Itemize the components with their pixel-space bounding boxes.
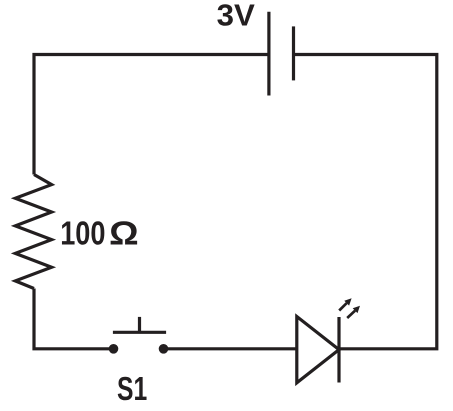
LED D1 triangle (anode) (297, 317, 339, 383)
svg-text:100: 100 (60, 215, 105, 252)
wire from resistor bottom to bottom-left corner and to switch left contact (34, 289, 114, 349)
svg-text:S1: S1 (117, 371, 147, 408)
LED D1 cathode bar (337, 317, 340, 383)
value label 3V (217, 0, 256, 33)
wire from battery positive plate to top-left corner and down to resistor top (34, 55, 269, 175)
svg-text:Ω: Ω (109, 215, 139, 252)
battery BT1 negative plate (short) (292, 26, 295, 80)
LED light emission arrow 1 (339, 298, 351, 310)
value label 100 ohm (60, 215, 139, 252)
wire from switch right contact to LED anode (164, 347, 297, 350)
wire from LED cathode along bottom-right corner up right side to battery negative plate (294, 55, 437, 349)
svg-text:3V: 3V (217, 0, 256, 33)
resistor R1 (zigzag) (15, 175, 51, 289)
battery BT1 positive plate (long) (267, 12, 270, 96)
label S1 (117, 371, 147, 408)
switch S1 (pushbutton) (109, 317, 169, 354)
LED light emission arrow 2 (347, 306, 360, 318)
